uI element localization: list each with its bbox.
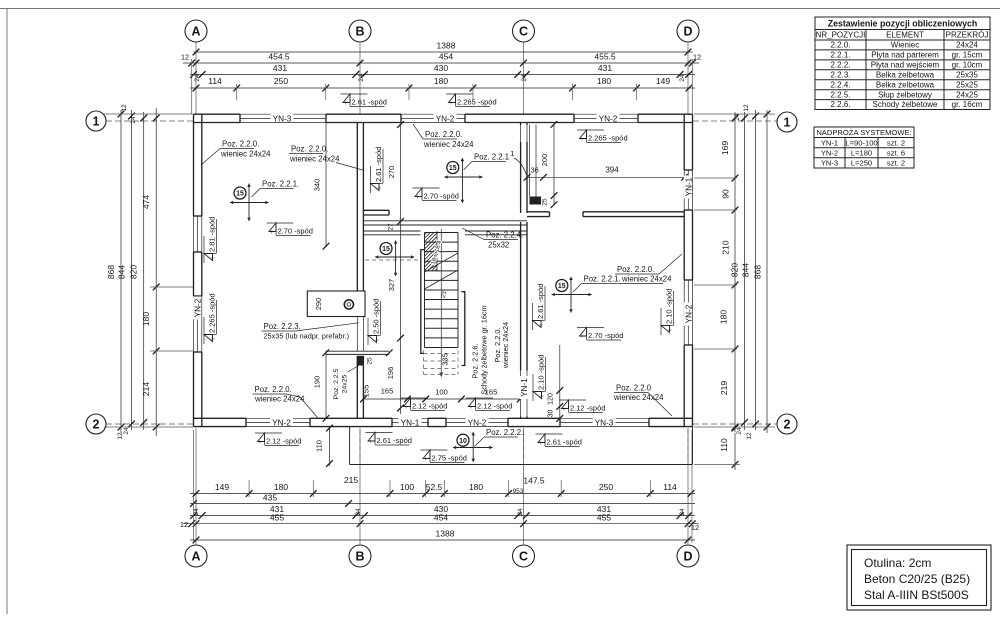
svg-text:114: 114 <box>208 76 222 86</box>
bottom dim row 455/454/455 <box>183 523 699 525</box>
svg-text:+: + <box>562 407 566 413</box>
svg-text:Otulina: 2cm: Otulina: 2cm <box>864 556 931 570</box>
bottom dim row 431/430/431 <box>190 515 695 517</box>
svg-text:Poz. 2.2.5: Poz. 2.2.5 <box>333 368 340 399</box>
svg-text:B: B <box>355 549 364 563</box>
svg-text:114: 114 <box>663 482 677 492</box>
svg-text:YN-2: YN-2 <box>599 114 618 123</box>
svg-text:2.265 -spód: 2.265 -spód <box>588 134 628 143</box>
position marker 15 stairs <box>395 240 397 276</box>
svg-text:24x24: 24x24 <box>956 41 978 50</box>
position marker 15 left room <box>248 184 250 222</box>
svg-text:30: 30 <box>548 410 555 418</box>
svg-text:2.75 -spód: 2.75 -spód <box>432 454 467 463</box>
window opening right wall <box>683 170 685 210</box>
lintel label YN-3 bottom right <box>593 418 616 426</box>
svg-text:YN-2: YN-2 <box>436 114 455 123</box>
svg-text:YN-3: YN-3 <box>273 114 292 123</box>
svg-text:169: 169 <box>720 141 730 155</box>
svg-text:431: 431 <box>273 63 287 73</box>
svg-text:+: + <box>375 338 381 342</box>
position marker 10 canopy <box>472 432 474 462</box>
column P2.2.5 on wall B <box>357 356 363 366</box>
svg-text:250: 250 <box>274 76 288 86</box>
svg-text:12: 12 <box>181 53 189 62</box>
svg-text:+: + <box>404 405 408 411</box>
svg-text:wieniec 24x24: wieniec 24x24 <box>220 150 271 159</box>
svg-text:+: + <box>416 195 420 201</box>
svg-text:+: + <box>344 101 348 107</box>
svg-text:Poz. 2.2.1.: Poz. 2.2.1. <box>262 180 299 189</box>
axis circles bottom A-D <box>185 545 207 567</box>
svg-text:YN-1: YN-1 <box>401 418 420 427</box>
svg-text:2: 2 <box>93 417 100 431</box>
stair break lines <box>425 253 459 272</box>
svg-text:YN-1: YN-1 <box>684 177 693 196</box>
svg-text:A: A <box>191 24 200 38</box>
svg-text:15: 15 <box>382 246 390 253</box>
interior wall B vertical <box>356 123 358 317</box>
top dim row 114/250/180/180/149 <box>190 87 695 89</box>
opening in wall B <box>356 317 358 351</box>
svg-text:2.50 -spód: 2.50 -spód <box>372 299 381 334</box>
svg-text:Poz. 2.2.0.: Poz. 2.2.0. <box>617 265 654 274</box>
svg-text:gr. 10cm: gr. 10cm <box>952 60 983 69</box>
svg-text:Schody żelbetowe gr. 16cm: Schody żelbetowe gr. 16cm <box>480 305 489 394</box>
svg-text:1: 1 <box>93 114 100 128</box>
window opening top wall <box>401 113 465 115</box>
interior wall right-room horizontal <box>527 211 550 213</box>
left dim col 844 <box>131 110 133 430</box>
svg-text:165: 165 <box>381 387 394 396</box>
position marker 15 right room <box>570 277 572 313</box>
svg-text:430: 430 <box>434 63 448 73</box>
axis circles left 1,2 <box>86 111 106 131</box>
svg-text:YN-2: YN-2 <box>272 418 291 427</box>
right dim 110 below <box>734 433 736 470</box>
svg-text:+: + <box>424 457 428 463</box>
pilaster lines near wall C <box>529 125 531 197</box>
window opening left wall <box>193 296 195 352</box>
interior dim row bottom corridor <box>363 398 520 400</box>
svg-text:+: + <box>668 328 674 332</box>
svg-text:12: 12 <box>180 520 188 529</box>
svg-text:YN-1: YN-1 <box>520 378 529 397</box>
svg-text:868: 868 <box>753 265 763 279</box>
svg-text:2.61 -spód: 2.61 -spód <box>352 98 387 107</box>
svg-text:25: 25 <box>367 357 374 365</box>
svg-text:435: 435 <box>263 493 277 503</box>
svg-text:10: 10 <box>459 438 467 445</box>
svg-text:2.61 -spód: 2.61 -spód <box>547 438 582 447</box>
svg-text:24: 24 <box>734 113 741 121</box>
svg-text:12: 12 <box>746 432 753 440</box>
svg-text:25x35: 25x35 <box>956 70 978 79</box>
dim 36/394 right room <box>527 176 685 178</box>
left dim witness lines <box>104 113 193 115</box>
svg-text:Poz. 2.2.0.: Poz. 2.2.0. <box>291 145 328 154</box>
svg-text:2: 2 <box>784 417 791 431</box>
svg-text:219: 219 <box>719 381 729 395</box>
window opening left wall <box>193 216 195 252</box>
svg-text:2.81 -spód: 2.81 -spód <box>208 217 217 252</box>
corridor lower wall lines <box>363 230 420 232</box>
chimney pipe circle <box>344 300 353 309</box>
position marker 15 middle room <box>461 158 463 203</box>
svg-text:L=250: L=250 <box>851 159 872 168</box>
svg-text:24: 24 <box>679 508 686 516</box>
lintel label YN-2 top right <box>597 114 620 122</box>
rotated flag 2.50 corridor <box>368 299 381 345</box>
svg-text:180: 180 <box>434 76 448 86</box>
svg-text:1: 1 <box>784 115 791 129</box>
svg-text:C: C <box>519 549 528 563</box>
svg-text:214: 214 <box>141 382 151 396</box>
opening bottom wall <box>560 417 649 419</box>
svg-text:Płyta nad parterem: Płyta nad parterem <box>871 50 939 59</box>
axis lines horizontal <box>106 120 193 122</box>
svg-text:L=180: L=180 <box>851 148 872 157</box>
svg-text:Wieniec: Wieniec <box>891 41 919 50</box>
svg-text:474: 474 <box>141 195 151 209</box>
svg-text:YN-3: YN-3 <box>595 418 614 427</box>
svg-text:12: 12 <box>693 53 701 62</box>
bottom dim row 1388 <box>190 539 695 541</box>
top dim row 1388 <box>194 51 693 53</box>
beam over corridor <box>363 220 527 222</box>
svg-text:+: + <box>270 230 274 236</box>
entrance canopy outline <box>349 427 351 465</box>
svg-text:24: 24 <box>193 508 200 516</box>
column P2.2.5 black <box>530 197 542 205</box>
dim 120/30 door wall C <box>559 345 561 418</box>
svg-text:844: 844 <box>741 263 751 277</box>
svg-text:Poz. 2.2.4.: Poz. 2.2.4. <box>486 231 523 240</box>
dim 110 left of canopy <box>329 427 331 466</box>
svg-text:2.2.3.: 2.2.3. <box>830 70 850 79</box>
left dim col 820 <box>143 112 145 430</box>
right dim col 820 <box>744 112 746 430</box>
info box: material notes <box>847 545 991 610</box>
svg-text:24: 24 <box>521 74 528 82</box>
svg-text:YN-2: YN-2 <box>684 304 693 323</box>
flag 2.70 middle room <box>413 187 440 189</box>
lintel label YN-1 right wall rotated <box>684 176 694 199</box>
svg-text:100: 100 <box>400 482 414 492</box>
lintel label YN-1 door wall C rotated <box>519 376 529 399</box>
svg-text:2.2.4.: 2.2.4. <box>830 80 850 89</box>
outer wall bottom <box>194 417 247 419</box>
svg-text:2.12 -spód: 2.12 -spód <box>570 404 605 413</box>
svg-text:820: 820 <box>129 265 139 279</box>
svg-text:gr. 16cm: gr. 16cm <box>952 100 983 109</box>
svg-text:340: 340 <box>313 179 322 192</box>
svg-text:2.10 -spód: 2.10 -spód <box>537 355 546 390</box>
flag 2.265 right room <box>577 129 604 131</box>
svg-text:Poz. 2.2.2.: Poz. 2.2.2. <box>486 428 523 437</box>
svg-text:394: 394 <box>605 166 619 175</box>
elevation flag 2.265 top <box>446 93 473 95</box>
svg-text:Poz. 2.2.3.: Poz. 2.2.3. <box>264 322 301 331</box>
interior dim col 340/190 <box>325 123 327 247</box>
svg-text:Płyta nad wejściem: Płyta nad wejściem <box>871 60 940 69</box>
svg-text:149: 149 <box>656 76 670 86</box>
svg-text:290: 290 <box>314 298 323 311</box>
svg-text:24: 24 <box>358 74 365 82</box>
svg-text:12: 12 <box>117 432 124 440</box>
flag 2.12 corridor right <box>466 397 493 399</box>
chimney block <box>307 291 365 317</box>
svg-text:2.70 -spód: 2.70 -spód <box>588 331 623 340</box>
outer wall right <box>683 114 685 170</box>
svg-text:+: + <box>539 441 543 447</box>
svg-text:215: 215 <box>344 475 358 485</box>
svg-text:2.2.6.: 2.2.6. <box>830 100 850 109</box>
svg-text:2.2.1.: 2.2.1. <box>830 50 850 59</box>
lintel label YN-2 bottom left <box>270 418 293 426</box>
svg-text:15: 15 <box>449 165 457 172</box>
svg-text:24: 24 <box>736 427 743 435</box>
svg-text:1: 1 <box>510 149 514 158</box>
svg-text:Poz. 2.2.6.: Poz. 2.2.6. <box>471 344 480 379</box>
svg-text:YN-2: YN-2 <box>468 418 487 427</box>
svg-text:C: C <box>519 24 528 38</box>
svg-text:Belka żelbetowa: Belka żelbetowa <box>876 80 935 89</box>
right dim witness lines <box>694 113 775 115</box>
svg-text:210: 210 <box>721 240 731 254</box>
svg-text:820: 820 <box>730 263 740 277</box>
interior wall C vertical lower <box>520 222 522 371</box>
svg-text:2.61 -spód: 2.61 -spód <box>377 436 412 445</box>
svg-text:2.12 -spód: 2.12 -spód <box>266 437 301 446</box>
svg-text:2.70 -spód: 2.70 -spód <box>424 192 459 201</box>
lintel over wall B opening <box>326 350 390 352</box>
opening bottom wall <box>446 417 508 419</box>
rotated flag 2.10 wall C right lower <box>533 355 546 401</box>
wall B lower part <box>356 356 358 419</box>
svg-text:2.12 -spód: 2.12 -spód <box>412 402 447 411</box>
svg-text:868: 868 <box>106 265 116 279</box>
svg-text:250: 250 <box>599 482 613 492</box>
svg-text:180: 180 <box>141 312 151 326</box>
bottom dim row small segments <box>190 493 695 495</box>
svg-text:90: 90 <box>721 189 731 199</box>
svg-text:Stal A-IIIN BSt500S: Stal A-IIIN BSt500S <box>864 588 969 602</box>
svg-text:196: 196 <box>386 367 395 380</box>
svg-text:24: 24 <box>679 74 686 82</box>
svg-text:szt. 6: szt. 6 <box>887 148 905 157</box>
axis witness lines vertical <box>195 42 197 114</box>
stair walking line <box>440 229 442 374</box>
svg-text:szt. 2: szt. 2 <box>887 159 905 168</box>
top dim row 454.5/454/455.5 <box>183 62 699 64</box>
svg-text:180: 180 <box>719 310 729 324</box>
svg-text:25x32: 25x32 <box>488 241 509 250</box>
svg-text:180: 180 <box>597 76 611 86</box>
svg-text:+: + <box>378 186 384 190</box>
svg-text:Poz. 2.2.1: Poz. 2.2.1 <box>474 153 509 162</box>
svg-text:155: 155 <box>362 385 371 398</box>
svg-text:147.5: 147.5 <box>523 476 545 486</box>
svg-text:NADPROŻA SYSTEMOWE:: NADPROŻA SYSTEMOWE: <box>816 128 911 137</box>
lintel label YN-2 left wall rotated <box>193 297 203 320</box>
opening bottom wall <box>392 417 428 419</box>
flag 2.75 canopy center <box>421 449 448 451</box>
svg-text:180: 180 <box>469 482 483 492</box>
top dim witness lines <box>236 84 238 100</box>
rotated flag 2.61 middle room <box>371 147 384 193</box>
svg-text:Poz. 2.2.0: Poz. 2.2.0 <box>616 384 652 393</box>
axis circles right 1,2 <box>777 112 797 132</box>
svg-text:454.5: 454.5 <box>268 52 290 62</box>
window opening top wall <box>240 113 326 115</box>
svg-text:wieniec 24x24: wieniec 24x24 <box>621 275 672 284</box>
svg-text:D: D <box>683 549 692 563</box>
svg-text:PRZEKRÓJ: PRZEKRÓJ <box>946 31 989 40</box>
svg-text:270: 270 <box>387 166 396 179</box>
svg-text:Belka żelbetowa: Belka żelbetowa <box>876 70 935 79</box>
svg-text:2.265 -spód: 2.265 -spód <box>457 98 497 107</box>
stair treads <box>424 233 426 348</box>
svg-text:A: A <box>191 549 200 563</box>
svg-text:Poz. 2.2.0.: Poz. 2.2.0. <box>425 130 462 139</box>
svg-text:190: 190 <box>313 376 322 389</box>
svg-text:+: + <box>369 440 373 446</box>
left dim col segments 474/180/214 <box>155 108 157 436</box>
svg-text:2.2.2.: 2.2.2. <box>830 60 850 69</box>
svg-text:L=90-100: L=90-100 <box>845 138 877 147</box>
interior dim col 270/327/196 <box>400 125 402 415</box>
svg-text:NR_POZYCJI: NR_POZYCJI <box>816 31 866 40</box>
left dim col 868 <box>120 110 122 433</box>
svg-text:2.61 -spód: 2.61 -spód <box>374 147 383 182</box>
stair left side wall <box>421 250 424 354</box>
svg-text:+: + <box>258 440 262 446</box>
svg-text:24: 24 <box>130 116 137 124</box>
svg-text:wieniec 24x24: wieniec 24x24 <box>501 322 510 369</box>
axis dashes through canopy <box>359 430 361 463</box>
svg-text:24: 24 <box>194 74 201 82</box>
flag 2.70 left room <box>267 222 294 224</box>
rotated flag 2.10 right wall <box>661 289 674 335</box>
bottom dim row 435 <box>190 503 695 505</box>
door opening wall C <box>520 371 522 417</box>
wall stub from B <box>363 209 389 211</box>
svg-text:2.12 -spód: 2.12 -spód <box>477 402 512 411</box>
svg-text:327: 327 <box>387 279 396 292</box>
svg-text:B: B <box>355 24 364 38</box>
flag 2.61 canopy right <box>536 433 563 435</box>
svg-text:455: 455 <box>270 513 284 523</box>
lintel label YN-2 bottom mid <box>466 418 489 426</box>
svg-text:15: 15 <box>236 191 244 198</box>
svg-text:200: 200 <box>540 154 549 167</box>
table: Zestawienie pozycji obliczeniowych <box>815 17 990 110</box>
lintel label YN-2 top mid <box>434 114 457 122</box>
svg-text:100: 100 <box>435 388 448 397</box>
elevation flag 2.61 top <box>341 93 368 95</box>
svg-text:953: 953 <box>513 488 524 495</box>
svg-text:25: 25 <box>542 198 549 206</box>
flag 2.70 right room <box>577 327 604 329</box>
svg-text:YN-1: YN-1 <box>821 138 838 147</box>
svg-text:wieniec 24x24: wieniec 24x24 <box>423 140 474 149</box>
svg-text:+: + <box>449 101 453 107</box>
svg-text:2.2.5.: 2.2.5. <box>830 90 850 99</box>
svg-text:Schody żelbetowe: Schody żelbetowe <box>873 100 938 109</box>
sheet border top <box>0 8 1000 10</box>
window opening top wall <box>574 113 638 115</box>
svg-text:D: D <box>683 24 692 38</box>
svg-text:24: 24 <box>517 508 524 516</box>
svg-text:gr. 15cm: gr. 15cm <box>952 50 983 59</box>
svg-text:1388: 1388 <box>437 41 456 51</box>
svg-text:24x25: 24x25 <box>342 375 349 394</box>
svg-text:1388: 1388 <box>436 529 455 539</box>
svg-text:+: + <box>211 256 217 260</box>
svg-text:25x25: 25x25 <box>956 80 978 89</box>
flag 2.12 right room bottom <box>559 399 586 401</box>
svg-text:149: 149 <box>215 482 229 492</box>
svg-text:YN-2: YN-2 <box>821 148 838 157</box>
top dim row 431/430/431 <box>190 74 695 76</box>
svg-text:431: 431 <box>598 63 612 73</box>
svg-text:wieniec 24x24: wieniec 24x24 <box>289 155 340 164</box>
svg-text:+: + <box>540 394 546 398</box>
svg-text:180: 180 <box>274 482 288 492</box>
svg-text:454: 454 <box>434 513 448 523</box>
lintel label YN-2 right wall rotated <box>684 303 694 326</box>
svg-text:335: 335 <box>441 353 450 366</box>
dim 200/25 right room <box>553 124 555 204</box>
svg-text:+: + <box>469 405 473 411</box>
window opening right wall <box>683 280 685 345</box>
svg-text:Poz. 2.2.1.: Poz. 2.2.1. <box>584 275 621 284</box>
rotated flag 2.81 left wall <box>204 217 217 263</box>
svg-text:844: 844 <box>117 265 127 279</box>
flag 2.12 below wall left <box>255 432 282 434</box>
svg-text:Słup żelbetowy: Słup żelbetowy <box>878 90 932 99</box>
svg-text:+: + <box>580 137 584 143</box>
bottom dim witness lines <box>248 480 250 497</box>
svg-text:110: 110 <box>719 438 729 452</box>
svg-text:24: 24 <box>123 427 130 435</box>
svg-text:ELEMENT: ELEMENT <box>886 31 924 40</box>
svg-text:2.10 -spód: 2.10 -spód <box>665 289 674 324</box>
outer wall left <box>193 114 195 216</box>
stair dashed lower flight <box>423 350 425 374</box>
svg-text:2.265 -spód: 2.265 -spód <box>208 293 217 333</box>
svg-text:455: 455 <box>597 513 611 523</box>
svg-text:Poz. 2.2.0.: Poz. 2.2.0. <box>222 140 259 149</box>
stair right side wall <box>462 292 465 366</box>
interior wall C vertical upper <box>520 123 522 126</box>
opening bottom wall <box>246 417 310 419</box>
flag 2.12 corridor left <box>401 397 428 399</box>
right dim col 844 <box>755 110 757 430</box>
svg-text:Beton C20/25 (B25): Beton C20/25 (B25) <box>864 572 970 586</box>
svg-text:2.70 -spód: 2.70 -spód <box>278 227 313 236</box>
svg-text:36: 36 <box>531 166 539 175</box>
rotated flag 2.61 wall C right <box>533 284 546 330</box>
right dim col segments 169/90/210/180/219 <box>734 112 736 432</box>
svg-text:120: 120 <box>548 393 555 405</box>
svg-text:15: 15 <box>558 283 566 290</box>
svg-text:+: + <box>580 335 584 341</box>
svg-text:24x25: 24x25 <box>956 90 978 99</box>
svg-text:+: + <box>540 323 546 327</box>
axis circles top A-D <box>185 20 207 42</box>
